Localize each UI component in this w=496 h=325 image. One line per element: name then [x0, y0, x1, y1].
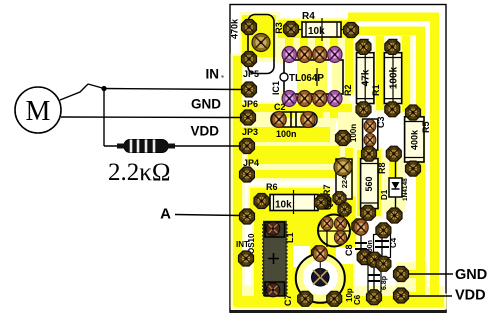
- right bottom connectors: [408, 270, 422, 278]
- capacitor C3: [349, 116, 386, 150]
- svg-text:C6: C6: [353, 294, 362, 305]
- bottom centre block: [254, 216, 345, 306]
- svg-text:JP5: JP5: [243, 69, 259, 79]
- resistor 2.2k body: [117, 140, 175, 153]
- VDD output pad: [394, 288, 409, 303]
- svg-text:IC1: IC1: [271, 81, 281, 95]
- capacitor C4: [367, 230, 398, 258]
- svg-text:R6: R6: [266, 182, 278, 192]
- GND output pad: [394, 267, 409, 282]
- svg-text:M: M: [26, 96, 51, 127]
- svg-text:100k: 100k: [388, 66, 399, 89]
- centre verticals: [345, 36, 353, 94]
- outer top-right L: [348, 13, 439, 22]
- svg-text:A: A: [160, 206, 171, 223]
- wire motor to junction: [60, 84, 88, 100]
- svg-text:400k: 400k: [410, 129, 420, 150]
- top-left block: [242, 15, 276, 57]
- R4 pad left: [284, 22, 299, 37]
- capacitor 6.8p: [368, 262, 388, 295]
- wire junction down: [103, 89, 105, 147]
- L1 pad top: [266, 222, 280, 236]
- resistor 560 R8: [361, 154, 387, 213]
- JP4 pad: [240, 167, 255, 182]
- svg-text:R4: R4: [302, 11, 315, 22]
- node A pad: [240, 209, 255, 224]
- svg-text:10k: 10k: [275, 200, 292, 211]
- R4 band: [278, 20, 356, 38]
- svg-text:R2: R2: [343, 84, 353, 96]
- JP5 pad mid: [252, 34, 270, 52]
- capacitor R7/224: [322, 159, 352, 199]
- R6 region: [250, 188, 330, 216]
- svg-text:D1: D1: [380, 189, 389, 200]
- capacitor C8: [344, 227, 367, 258]
- svg-text:IN: IN: [206, 67, 220, 82]
- wire VDD out: [408, 295, 452, 297]
- mid horizontals: [242, 104, 352, 112]
- resistor R5 400k: [405, 113, 431, 169]
- resistor R1 100k: [371, 47, 402, 109]
- svg-text:1N4148: 1N4148: [402, 178, 409, 201]
- right bottom connectors: [408, 270, 422, 278]
- svg-text:VDD: VDD: [190, 124, 219, 139]
- resistor R4: [291, 11, 351, 41]
- R4 pad right: [344, 23, 359, 38]
- bottom centre block: [254, 216, 345, 306]
- diode D1 1N4148: [380, 158, 409, 210]
- svg-text:VDD: VDD: [455, 288, 486, 304]
- VDD pad JP3: [240, 139, 255, 154]
- transistor Q2: [318, 198, 350, 247]
- 560 / D1 region: [357, 150, 381, 216]
- Q2 block: [316, 196, 356, 250]
- pads above Q2: [314, 196, 327, 209]
- svg-text:R3: R3: [274, 22, 284, 34]
- trace halos: [233, 15, 444, 307]
- svg-text:C8: C8: [344, 244, 354, 256]
- R5 pad bottom: [406, 161, 421, 176]
- svg-text:47k: 47k: [361, 69, 372, 86]
- U1 pin pad row bottom: [282, 91, 296, 107]
- D1 bottom pad: [387, 208, 402, 223]
- R4 band: [278, 20, 356, 38]
- svg-text:560: 560: [364, 176, 374, 191]
- svg-text:JP6: JP6: [242, 99, 258, 109]
- wire VDD right: [175, 145, 241, 147]
- resistor R3/470k body (top-left rounded): [248, 15, 274, 74]
- mid horizontals: [242, 104, 352, 112]
- svg-text:C2: C2: [274, 102, 286, 112]
- pale yellow wash patches: [234, 12, 444, 304]
- wire IN: [104, 89, 243, 90]
- pad right of Q2: [352, 219, 367, 234]
- svg-text:2.2κΩ: 2.2κΩ: [108, 159, 170, 186]
- IN pad JP5: [242, 82, 257, 97]
- op-amp U1 TL064P outline: [280, 60, 343, 94]
- R6 region: [250, 188, 330, 216]
- Q2 block: [316, 196, 356, 250]
- white patches inside bottom block: [293, 246, 356, 267]
- bright yellow traces: [233, 13, 444, 308]
- wire VDD left: [104, 145, 125, 147]
- JP5 pad bottom: [242, 52, 257, 67]
- R1 pad top: [388, 39, 397, 43]
- svg-text:C7: C7: [283, 294, 293, 306]
- PCB outline: [230, 5, 446, 312]
- wire GND out: [409, 273, 453, 275]
- wire GND: [61, 116, 242, 119]
- C2 capacitor: [271, 102, 317, 139]
- svg-text:R5: R5: [421, 121, 431, 133]
- wire A: [175, 215, 240, 216]
- resistor R2 47k: [343, 47, 374, 109]
- svg-text:R8: R8: [377, 162, 387, 174]
- JP5 pad top: [242, 20, 257, 35]
- svg-text:TL064P: TL064P: [289, 73, 324, 84]
- INT pad: [239, 251, 254, 266]
- node junction: [101, 86, 106, 91]
- svg-text:GND: GND: [455, 267, 487, 283]
- resistor R6 10k: [261, 182, 323, 214]
- R2 pad bottom: [356, 102, 371, 117]
- inductor L1 (dark body): [263, 221, 295, 296]
- left edge vertical: [233, 56, 242, 306]
- GND pad JP6: [241, 110, 256, 125]
- svg-text:C3: C3: [376, 116, 386, 128]
- bottom band: [234, 296, 444, 307]
- 560 / D1 region: [357, 150, 381, 216]
- motor M: [15, 87, 61, 133]
- svg-text:C4: C4: [389, 237, 398, 248]
- node pad left of C3: [336, 131, 351, 146]
- U1 pin pad row top: [282, 47, 296, 63]
- L1 pad bottom: [266, 283, 280, 297]
- svg-text:6.8p: 6.8p: [381, 276, 388, 290]
- R1 pad bottom: [385, 102, 400, 117]
- top-left block: [242, 15, 276, 57]
- IC column stubs: [285, 38, 293, 62]
- svg-text:470k: 470k: [229, 18, 239, 39]
- trimmer capacitor C6 (big circle): [296, 254, 345, 303]
- R2 pad top: [360, 39, 369, 43]
- left edge vertical: [233, 56, 242, 306]
- svg-text:R1: R1: [371, 84, 381, 96]
- svg-text:224: 224: [340, 175, 349, 188]
- inner L: [352, 27, 424, 36]
- bottom band: [234, 296, 444, 307]
- IC column stubs: [285, 38, 293, 62]
- centre verticals: [345, 36, 353, 94]
- svg-text:L1: L1: [285, 232, 295, 243]
- R5 pad top: [406, 105, 421, 120]
- svg-text:JP3: JP3: [242, 127, 258, 137]
- svg-text:GND: GND: [191, 97, 221, 112]
- svg-text:100n: 100n: [276, 129, 297, 139]
- pad lower-left of Q2: [312, 246, 327, 261]
